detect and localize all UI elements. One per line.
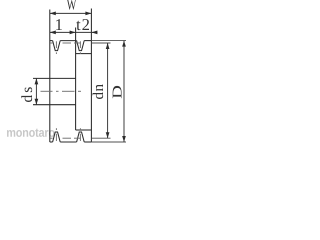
wire bore top	[33, 77, 76, 79]
arrow dn top	[106, 43, 110, 49]
groove 2 top	[77, 41, 85, 51]
label l (1)	[56, 19, 62, 30]
wire rim inner bottom	[76, 129, 92, 131]
label D	[113, 86, 122, 98]
wire pulley right edge	[90, 9, 92, 143]
centerline pitch top dashes	[50, 42, 52, 44]
label t2	[76, 19, 89, 30]
label dn	[93, 84, 104, 99]
wire rim top edge	[50, 40, 53, 42]
arrow W left	[50, 12, 56, 16]
wire bore bottom	[33, 104, 76, 106]
wire pitch extension bottom	[91, 137, 110, 139]
watermark monotaro	[7, 129, 55, 137]
dimension W line	[50, 12, 92, 14]
arrow ds bottom	[35, 99, 39, 105]
arrow ds top	[35, 78, 39, 84]
arrow dn bottom	[106, 132, 110, 138]
dimension D line	[123, 41, 125, 142]
arrow W right	[85, 12, 91, 16]
arrow l right	[70, 31, 76, 35]
label ds	[21, 87, 32, 102]
wire rim bottom edge	[50, 141, 53, 143]
groove 1 centerline top	[55, 41, 57, 48]
arrow D top	[122, 41, 126, 47]
groove 2 centerline top	[79, 41, 81, 48]
arrow l left	[50, 31, 56, 35]
centerline axis	[41, 90, 53, 92]
dimension dn line	[107, 43, 109, 138]
dimension ds line	[35, 78, 37, 104]
wire hub right edge line	[75, 28, 77, 131]
groove 2 centerline bottom	[79, 134, 81, 141]
centerline pitch bottom dashes	[50, 137, 52, 139]
arrow D bottom	[122, 136, 126, 142]
groove 2 bottom	[77, 132, 85, 142]
dimension l line	[50, 31, 76, 33]
wire rim inner top	[76, 53, 92, 55]
wire pulley left edge	[49, 10, 51, 143]
groove 1 top	[53, 41, 61, 51]
groove 1 centerline bottom	[55, 134, 57, 141]
wire OD extension bottom	[91, 141, 126, 143]
wire pitch extension top	[91, 42, 110, 44]
groove 1 bottom	[53, 132, 61, 142]
wire OD extension top	[91, 40, 126, 42]
arrow t2 right (outside)	[91, 31, 97, 35]
label W	[67, 0, 77, 10]
dimension t2 line with tail	[76, 31, 98, 33]
